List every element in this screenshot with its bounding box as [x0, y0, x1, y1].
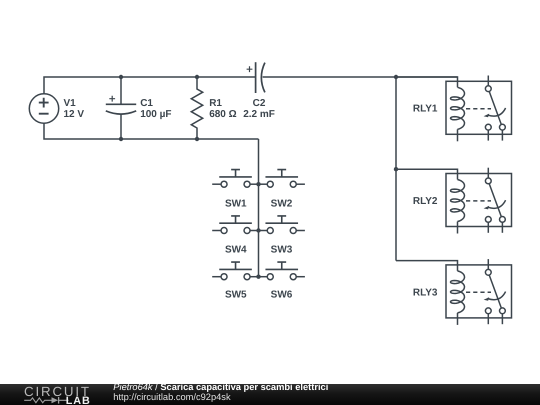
svg-text:SW5: SW5 — [225, 290, 247, 301]
junction node RLY2 tap — [394, 167, 398, 171]
resistor R1 680 Ohm — [191, 77, 236, 139]
svg-text:V1: V1 — [64, 98, 77, 109]
junction node SW row3 — [256, 275, 260, 279]
relay RLY1 (coil + SPDT switch) — [396, 76, 512, 142]
svg-text:2.2 mF: 2.2 mF — [243, 109, 275, 120]
svg-text:RLY2: RLY2 — [413, 196, 438, 207]
svg-text:SW2: SW2 — [271, 199, 293, 210]
svg-text:SW1: SW1 — [225, 199, 247, 210]
svg-text:R1: R1 — [209, 98, 222, 109]
wire relay bus vertical — [395, 77, 397, 261]
junction node SW row2 — [256, 228, 260, 232]
wire C2 right plate to relay bus — [263, 76, 458, 78]
junction node R1 bottom — [195, 137, 199, 141]
svg-text:680 Ω: 680 Ω — [209, 109, 236, 120]
voltage source V1 12 V — [29, 94, 84, 123]
pushbutton switch SW3 — [259, 216, 305, 256]
footer bar — [0, 384, 540, 405]
svg-text:LAB: LAB — [66, 395, 91, 405]
pushbutton switch SW1 — [212, 170, 258, 210]
svg-text:SW3: SW3 — [271, 245, 293, 256]
svg-text:SW6: SW6 — [271, 290, 293, 301]
svg-text:100 µF: 100 µF — [140, 109, 171, 120]
CircuitLab logo — [24, 384, 91, 405]
junction node relay bus tap — [394, 75, 398, 79]
junction node R1 top — [195, 75, 199, 79]
svg-text:RLY3: RLY3 — [413, 287, 438, 298]
svg-text:SW4: SW4 — [225, 245, 247, 256]
svg-text:Pietro64k / Scarica capacitiva: Pietro64k / Scarica capacitiva per scamb… — [113, 382, 328, 392]
wire bottom rail (V1- to switch bus corner) — [44, 124, 259, 140]
junction node C1 bottom — [119, 137, 123, 141]
relay RLY3 (coil + SPDT switch) — [396, 259, 512, 325]
relay RLY2 (coil + SPDT switch) — [396, 168, 512, 234]
wire switch bus vertical — [258, 139, 260, 277]
svg-text:http://circuitlab.com/c92p4sk: http://circuitlab.com/c92p4sk — [113, 392, 231, 402]
wire top rail (V1+ to C2 left plate) — [44, 77, 256, 94]
pushbutton switch SW5 — [212, 262, 258, 301]
svg-text:12 V: 12 V — [64, 109, 85, 120]
svg-text:RLY1: RLY1 — [413, 104, 438, 115]
capacitor C1 100 uF (polarized) — [106, 77, 172, 139]
junction node SW row1 — [256, 182, 260, 186]
junction node C1 top — [119, 75, 123, 79]
pushbutton switch SW2 — [259, 170, 305, 210]
footer caption text — [113, 382, 328, 402]
pushbutton switch SW6 — [259, 262, 305, 301]
pushbutton switch SW4 — [212, 216, 258, 256]
svg-text:C1: C1 — [140, 98, 153, 109]
capacitor C2 2.2 mF (polarized) — [243, 62, 275, 120]
svg-text:C2: C2 — [253, 98, 266, 109]
